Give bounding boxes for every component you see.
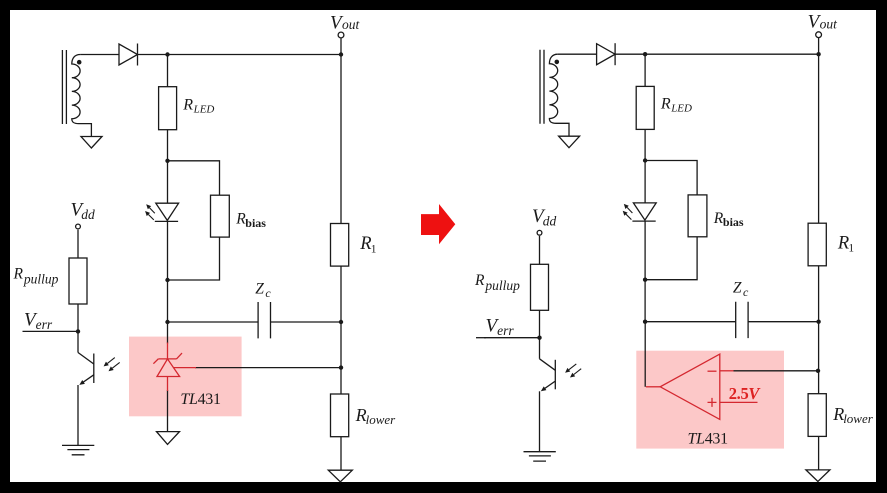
svg-text:Z: Z bbox=[733, 280, 742, 297]
svg-text:pullup: pullup bbox=[23, 272, 59, 287]
svg-text:Z: Z bbox=[255, 281, 264, 298]
svg-text:2.5V: 2.5V bbox=[729, 384, 762, 403]
svg-text:lower: lower bbox=[843, 411, 874, 426]
svg-text:TL431: TL431 bbox=[688, 430, 729, 447]
svg-text:c: c bbox=[743, 285, 749, 299]
svg-text:dd: dd bbox=[81, 207, 95, 222]
svg-text:out: out bbox=[342, 17, 361, 32]
svg-text:R: R bbox=[359, 234, 371, 254]
svg-text:err: err bbox=[36, 317, 53, 332]
svg-text:out: out bbox=[820, 16, 839, 31]
svg-text:R: R bbox=[474, 272, 485, 289]
svg-text:pullup: pullup bbox=[484, 278, 520, 293]
svg-text:dd: dd bbox=[543, 213, 557, 228]
svg-text:err: err bbox=[497, 323, 514, 338]
svg-text:1: 1 bbox=[371, 244, 377, 256]
svg-text:bias: bias bbox=[245, 216, 266, 230]
svg-text:bias: bias bbox=[723, 215, 744, 229]
svg-text:R: R bbox=[13, 266, 24, 283]
svg-text:LED: LED bbox=[670, 103, 692, 115]
svg-text:TL431: TL431 bbox=[180, 391, 221, 408]
svg-text:R: R bbox=[182, 96, 193, 113]
svg-text:lower: lower bbox=[366, 412, 397, 427]
svg-text:R: R bbox=[837, 233, 849, 253]
svg-text:R: R bbox=[660, 96, 671, 113]
svg-text:LED: LED bbox=[193, 103, 215, 115]
svg-text:1: 1 bbox=[848, 243, 854, 255]
svg-text:c: c bbox=[265, 286, 271, 300]
